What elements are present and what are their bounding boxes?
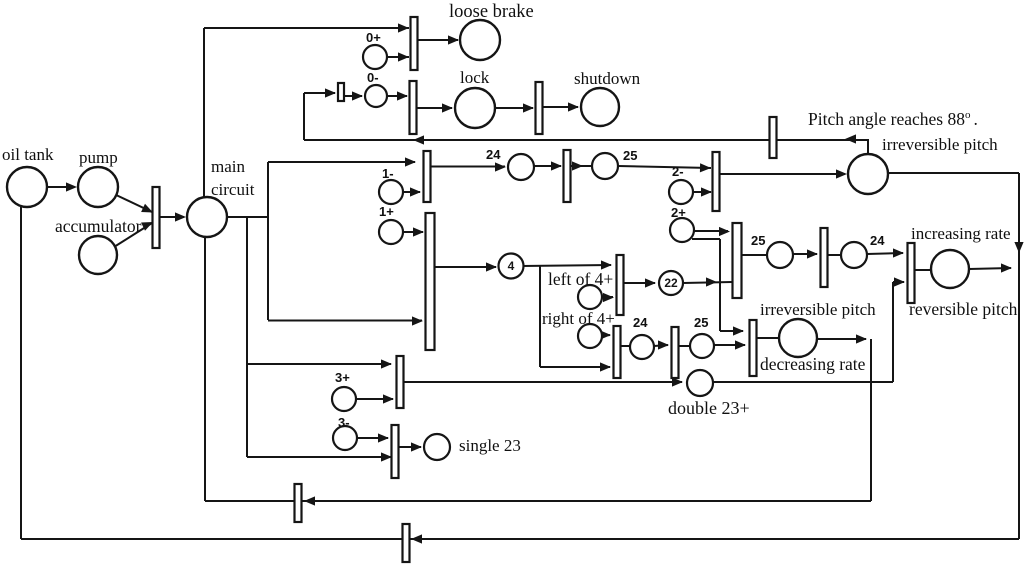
- svg-text:1+: 1+: [379, 204, 394, 219]
- svg-text:main: main: [211, 157, 245, 176]
- svg-text:oil tank: oil tank: [2, 145, 54, 164]
- svg-text:single 23: single 23: [459, 436, 521, 455]
- svg-text:shutdown: shutdown: [574, 69, 641, 88]
- svg-text:2-: 2-: [672, 164, 684, 179]
- svg-text:25: 25: [694, 315, 708, 330]
- svg-text:reversible pitch: reversible pitch: [909, 299, 1018, 319]
- svg-text:0+: 0+: [366, 30, 381, 45]
- svg-text:2+: 2+: [671, 205, 686, 220]
- svg-text:increasing rate: increasing rate: [911, 224, 1011, 243]
- svg-text:22: 22: [664, 276, 678, 290]
- svg-text:25: 25: [623, 148, 637, 163]
- svg-text:4: 4: [508, 259, 515, 273]
- svg-text:pump: pump: [79, 148, 118, 167]
- svg-text:3-: 3-: [338, 415, 350, 430]
- svg-text:right of 4+: right of 4+: [542, 309, 615, 328]
- svg-text:1-: 1-: [382, 166, 394, 181]
- svg-text:double 23+: double 23+: [668, 398, 750, 418]
- svg-text:accumulator: accumulator: [55, 216, 142, 236]
- svg-text:decreasing rate: decreasing rate: [760, 354, 866, 374]
- svg-text:irreversible pitch: irreversible pitch: [882, 135, 998, 154]
- svg-text:Pitch angle reaches 88o.: Pitch angle reaches 88o.: [808, 109, 978, 129]
- svg-text:lock: lock: [460, 68, 490, 87]
- svg-text:24: 24: [870, 233, 885, 248]
- svg-text:0-: 0-: [367, 70, 379, 85]
- svg-text:3+: 3+: [335, 370, 350, 385]
- svg-text:irreversible pitch: irreversible pitch: [760, 300, 876, 319]
- svg-text:loose brake: loose brake: [449, 2, 534, 22]
- svg-text:24: 24: [633, 315, 648, 330]
- svg-text:25: 25: [751, 233, 765, 248]
- svg-text:circuit: circuit: [211, 180, 255, 199]
- svg-text:left of 4+: left of 4+: [548, 269, 613, 289]
- svg-text:24: 24: [486, 147, 501, 162]
